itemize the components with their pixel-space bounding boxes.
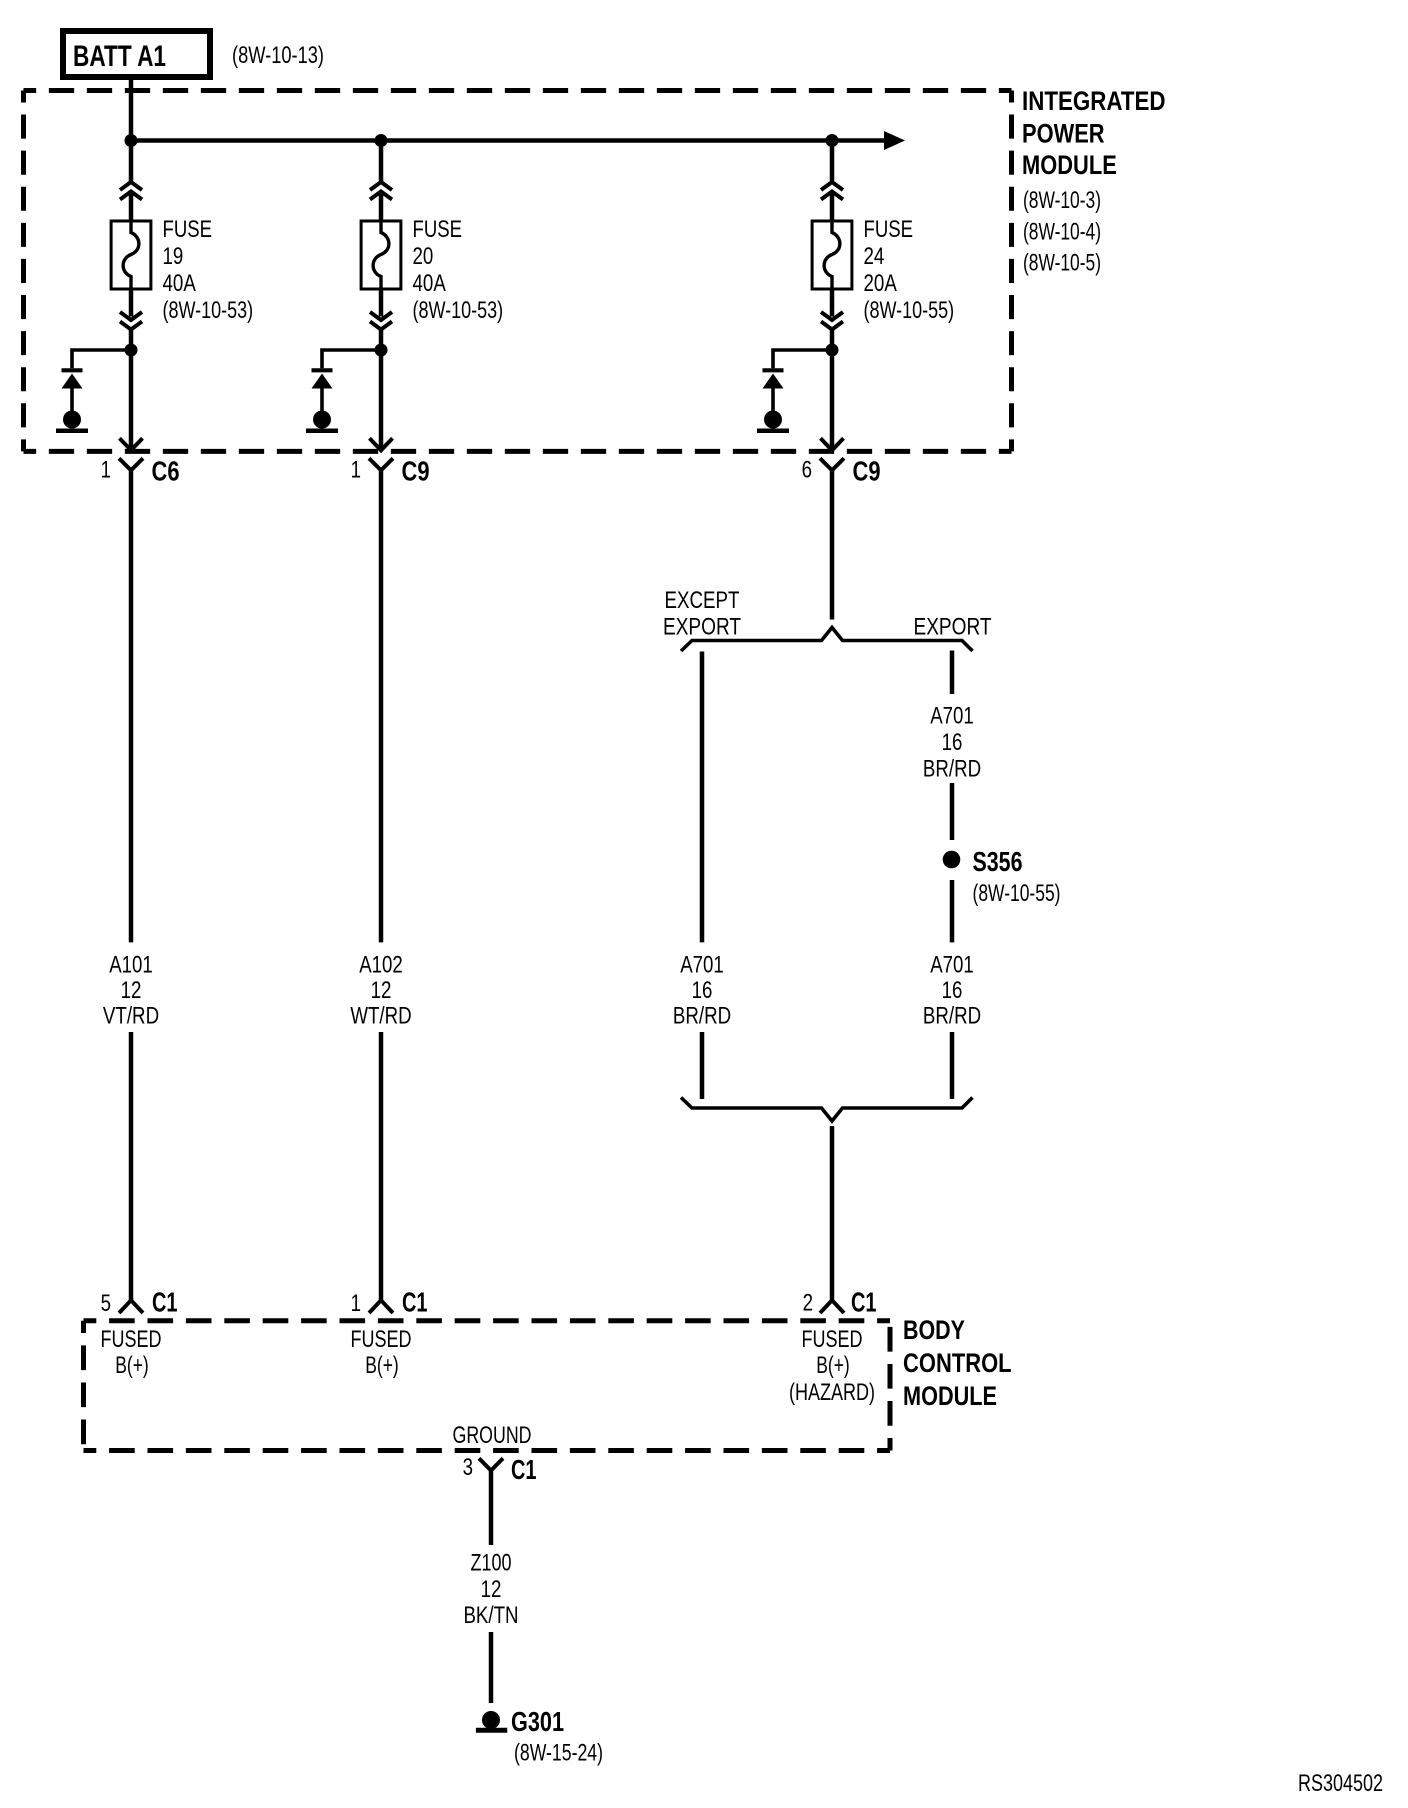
svg-text:BR/RD: BR/RD [923,1002,981,1029]
svg-text:MODULE: MODULE [903,1381,997,1411]
svg-text:2: 2 [803,1290,813,1317]
svg-text:FUSED: FUSED [802,1326,863,1353]
svg-text:12: 12 [371,977,392,1004]
svg-text:G301: G301 [511,1706,564,1737]
svg-text:1: 1 [351,457,361,484]
svg-text:(8W-10-5): (8W-10-5) [1023,250,1101,277]
svg-text:6: 6 [802,457,812,484]
svg-text:19: 19 [163,243,184,270]
svg-text:(8W-10-53): (8W-10-53) [413,297,504,324]
svg-text:Z100: Z100 [471,1550,512,1577]
svg-text:WT/RD: WT/RD [350,1002,411,1029]
svg-text:FUSE: FUSE [163,216,213,243]
svg-text:5: 5 [101,1290,111,1317]
svg-text:(8W-15-24): (8W-15-24) [514,1740,603,1767]
svg-text:(8W-10-4): (8W-10-4) [1023,218,1101,245]
svg-text:BR/RD: BR/RD [673,1002,731,1029]
svg-text:FUSE: FUSE [864,216,914,243]
svg-text:1: 1 [101,457,111,484]
svg-text:C9: C9 [853,456,881,487]
svg-text:FUSED: FUSED [101,1326,162,1353]
svg-text:B(+): B(+) [115,1352,149,1379]
svg-text:40A: 40A [413,270,446,297]
svg-text:(8W-10-3): (8W-10-3) [1023,187,1101,214]
svg-text:16: 16 [692,977,713,1004]
svg-text:RS304502: RS304502 [1298,1770,1383,1797]
svg-text:MODULE: MODULE [1022,150,1117,180]
svg-text:3: 3 [463,1454,473,1481]
svg-text:A701: A701 [930,952,974,979]
svg-text:VT/RD: VT/RD [103,1002,159,1029]
svg-text:EXPORT: EXPORT [663,614,741,641]
svg-text:C6: C6 [152,456,180,487]
svg-text:C1: C1 [152,1287,178,1318]
svg-text:EXPORT: EXPORT [914,614,992,641]
svg-text:C9: C9 [402,456,430,487]
svg-text:1: 1 [351,1290,361,1317]
svg-text:BK/TN: BK/TN [463,1602,518,1629]
svg-text:B(+): B(+) [365,1352,399,1379]
svg-text:B(+): B(+) [816,1352,850,1379]
svg-text:16: 16 [942,729,963,756]
svg-text:BATT A1: BATT A1 [73,40,166,73]
svg-text:16: 16 [942,977,963,1004]
svg-text:20A: 20A [864,270,897,297]
svg-text:A102: A102 [359,952,403,979]
svg-text:C1: C1 [511,1454,537,1485]
svg-text:INTEGRATED: INTEGRATED [1022,86,1166,116]
svg-text:A101: A101 [109,952,153,979]
svg-text:GROUND: GROUND [453,1422,532,1449]
svg-text:12: 12 [121,977,142,1004]
svg-text:A701: A701 [930,703,974,730]
svg-text:(8W-10-53): (8W-10-53) [163,297,254,324]
svg-text:POWER: POWER [1022,119,1105,149]
svg-text:BODY: BODY [903,1315,965,1345]
svg-text:24: 24 [864,243,885,270]
svg-text:(8W-10-55): (8W-10-55) [973,880,1061,907]
svg-text:EXCEPT: EXCEPT [665,587,740,614]
svg-text:FUSE: FUSE [413,216,463,243]
svg-text:C1: C1 [402,1287,428,1318]
svg-text:C1: C1 [851,1287,877,1318]
svg-text:12: 12 [481,1576,502,1603]
svg-text:(HAZARD): (HAZARD) [789,1379,875,1406]
svg-text:40A: 40A [163,270,196,297]
svg-text:CONTROL: CONTROL [903,1348,1012,1378]
svg-text:FUSED: FUSED [351,1326,412,1353]
svg-text:20: 20 [413,243,434,270]
svg-text:BR/RD: BR/RD [923,756,981,783]
svg-text:A701: A701 [680,952,724,979]
svg-text:(8W-10-13): (8W-10-13) [232,42,324,69]
svg-text:(8W-10-55): (8W-10-55) [864,297,955,324]
svg-text:S356: S356 [973,846,1023,877]
